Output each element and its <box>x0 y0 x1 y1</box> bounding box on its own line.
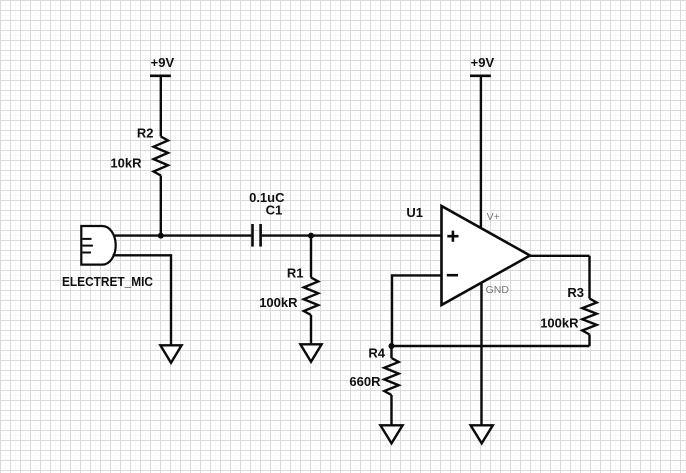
svg-text:C1: C1 <box>266 202 283 217</box>
svg-text:100kR: 100kR <box>259 295 298 310</box>
svg-text:R1: R1 <box>287 265 304 280</box>
svg-text:U1: U1 <box>406 205 423 220</box>
svg-text:V+: V+ <box>487 211 500 223</box>
svg-text:R4: R4 <box>368 346 385 361</box>
svg-text:100kR: 100kR <box>540 315 579 330</box>
svg-text:+9V: +9V <box>471 55 495 70</box>
svg-text:R3: R3 <box>567 285 584 300</box>
svg-text:+9V: +9V <box>151 55 175 70</box>
svg-text:10kR: 10kR <box>110 156 142 171</box>
svg-text:GND: GND <box>486 284 510 296</box>
svg-text:660R: 660R <box>349 374 381 389</box>
svg-text:ELECTRET_MIC: ELECTRET_MIC <box>62 274 154 289</box>
svg-text:R2: R2 <box>137 126 154 141</box>
